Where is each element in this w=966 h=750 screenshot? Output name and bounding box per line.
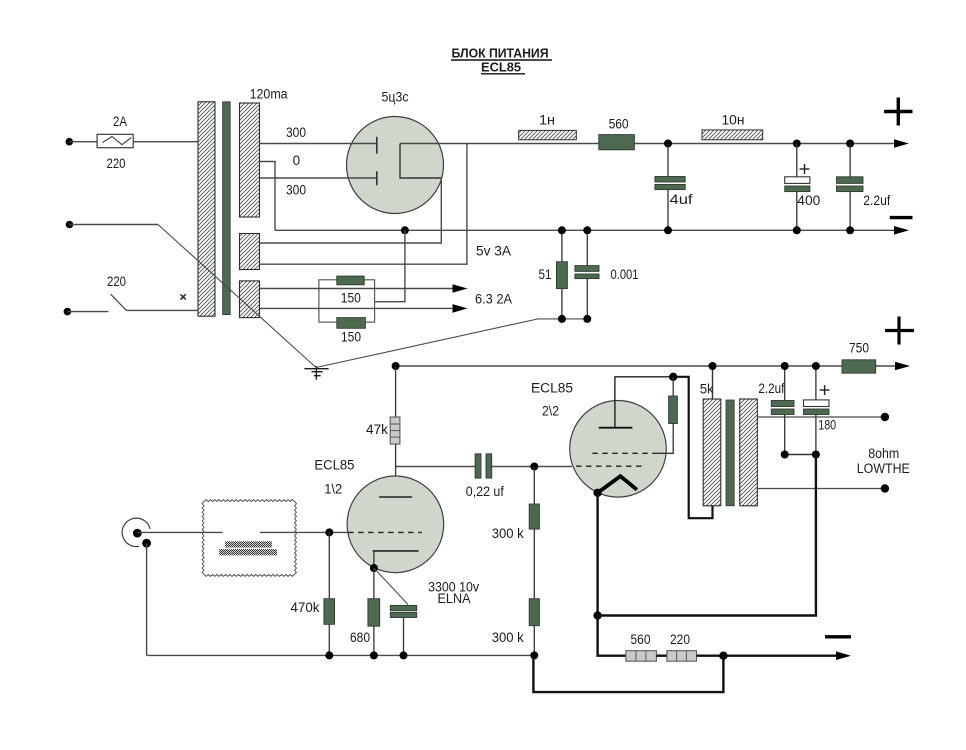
resistor 300k upper — [529, 467, 539, 599]
node bus-humdinger — [401, 226, 409, 234]
wire diagonal N to ground — [158, 225, 316, 368]
svg-text:220: 220 — [107, 274, 126, 289]
minus symbol amp — [825, 635, 851, 638]
fuse F1 2A — [97, 134, 133, 147]
capacitor 180 electrolytic — [804, 366, 830, 455]
node 0.001 bottom — [583, 315, 591, 323]
feedback wire cathode down — [596, 493, 598, 616]
RCA input jack — [122, 518, 151, 547]
node ELNA bottom — [400, 651, 408, 659]
node 2.2uf psu top — [846, 140, 854, 148]
svg-text:6.3 2A: 6.3 2A — [475, 292, 512, 307]
capacitor 0,22uf coupling — [475, 454, 492, 478]
node 2.2uf psu bottom — [846, 226, 854, 234]
node 400 top — [793, 140, 801, 148]
output transformer 5k primary — [703, 399, 721, 506]
svg-text:1\2: 1\2 — [324, 482, 342, 497]
humdinger box — [319, 280, 375, 322]
resistor 150 top — [337, 276, 364, 285]
terminal mains L — [66, 138, 74, 146]
rectifier anode plate 2 — [376, 171, 378, 185]
node 180 top — [812, 362, 820, 370]
switch SW1 lever — [111, 294, 127, 310]
ground symbol — [304, 366, 328, 380]
node 680 bottom — [370, 651, 378, 659]
wire 220 to arrow — [697, 655, 839, 657]
feedback wire to caps — [598, 455, 816, 616]
arrow feedback out — [836, 651, 851, 660]
transformer T1 primary winding — [198, 102, 215, 316]
svg-text:150: 150 — [341, 291, 361, 306]
title ECL85 — [481, 61, 525, 75]
node 0.001 top — [583, 226, 591, 234]
wire terminal N — [70, 224, 159, 226]
anode2 wire up and over — [615, 377, 673, 428]
x mark — [181, 294, 186, 299]
wire ground diagonal to filter bottom — [316, 319, 587, 368]
node screen resistor top — [669, 373, 677, 381]
terminal speaker top — [881, 413, 889, 421]
svg-text:1н: 1н — [539, 113, 555, 128]
wire rail to 5k primary — [712, 366, 714, 399]
output transformer secondary — [740, 399, 758, 506]
svg-text:220: 220 — [670, 632, 690, 647]
terminal mains switch side — [64, 308, 72, 316]
svg-text:ELNA: ELNA — [438, 591, 471, 606]
resistor 750 — [842, 360, 876, 373]
svg-text:180: 180 — [818, 418, 836, 433]
ground rail bottom — [147, 654, 535, 656]
wire switch to primary — [126, 309, 198, 311]
svg-text:750: 750 — [849, 341, 869, 356]
terminal speaker bottom — [881, 484, 889, 492]
tube2 cathode heavy V — [598, 476, 637, 493]
transformer T1 5v secondary — [240, 234, 260, 270]
svg-text:220: 220 — [107, 156, 126, 171]
tube ECL85 1/2 envelope — [347, 476, 444, 573]
svg-text:300 k: 300 k — [492, 526, 524, 541]
node rail 5k — [709, 362, 717, 370]
node 400 bottom — [793, 226, 801, 234]
svg-text:680: 680 — [350, 630, 370, 645]
resistor 560 psu — [599, 135, 635, 150]
wire HV center tap 0 — [260, 162, 276, 231]
wire secondary to speaker bottom — [757, 488, 885, 490]
wire input shield down — [146, 543, 148, 655]
node cap join left — [781, 451, 789, 459]
node 4uf top — [664, 140, 672, 148]
node cap join right — [812, 451, 820, 459]
capacitor 2.2uf psu — [837, 144, 864, 231]
svg-text:8ohm: 8ohm — [868, 446, 899, 461]
tube1 grid dashed — [348, 531, 422, 533]
main B+ output wire — [400, 143, 897, 145]
svg-text:0,22 uf: 0,22 uf — [466, 484, 504, 499]
plus symbol psu — [884, 98, 912, 126]
svg-text:2.2uf: 2.2uf — [863, 193, 890, 208]
minus bus wire — [275, 229, 897, 231]
tube1 cathode — [373, 550, 419, 552]
svg-text:ECL85: ECL85 — [481, 61, 521, 75]
node grid2 divider — [530, 463, 538, 471]
svg-text:2.2uf: 2.2uf — [758, 381, 784, 396]
arrow 6.3v A — [453, 284, 468, 293]
resistor 51 — [556, 230, 567, 319]
transformer T1 HV secondary — [240, 103, 260, 217]
rectifier cathode box — [400, 144, 441, 179]
node rail 47k — [392, 362, 400, 370]
plus symbol amp — [885, 317, 914, 345]
svg-text:5ц3с: 5ц3с — [382, 90, 409, 105]
svg-text:560: 560 — [609, 116, 629, 131]
svg-text:4uf: 4uf — [670, 192, 693, 207]
node 51 bottom — [558, 315, 566, 323]
output transformer core — [726, 400, 734, 506]
plus mark 400 — [800, 164, 810, 174]
svg-text:0.001: 0.001 — [611, 267, 639, 282]
svg-text:400: 400 — [797, 193, 820, 208]
capacitor 4uf — [655, 144, 685, 231]
arrow amp B+ — [895, 362, 910, 371]
arrow 6.3v B — [453, 304, 468, 313]
rectifier tube 5ц3с envelope — [347, 117, 444, 214]
amp B+ rail — [396, 365, 898, 367]
wire 6.3v tap A — [260, 288, 455, 290]
capacitor 3300 10v ELNA — [390, 605, 416, 655]
svg-text:2\2: 2\2 — [542, 404, 559, 419]
tube2 control grid dashed — [576, 465, 646, 467]
wire terminal to fuse — [69, 141, 97, 143]
svg-text:560: 560 — [631, 632, 651, 647]
wire HV tap upper 300 — [260, 143, 377, 145]
node cathode2 — [593, 489, 601, 497]
wire HV tap lower 300 — [260, 177, 377, 179]
svg-text:LOWTHE: LOWTHE — [857, 461, 910, 476]
svg-text:150: 150 — [341, 330, 361, 345]
node 51 top — [558, 226, 566, 234]
volume pot texture bar 1 — [225, 541, 272, 547]
wire coupling to grid2 — [492, 466, 572, 468]
wire terminal to switch — [67, 311, 108, 313]
wire fuse to transformer primary — [133, 141, 198, 143]
transformer T1 6.3v secondary — [240, 281, 260, 318]
resistor 470k — [324, 532, 335, 655]
wire input signal — [137, 531, 222, 533]
transformer T1 core — [223, 102, 231, 315]
feedback jog wire — [533, 655, 723, 692]
node feedback jog — [719, 652, 727, 660]
capacitor 0.001 — [575, 230, 599, 319]
arrow bus right — [894, 226, 909, 235]
volume pot texture bar 2 — [219, 549, 277, 555]
wire anode1 to coupling — [396, 466, 476, 468]
resistor 220 feedback — [667, 651, 697, 662]
svg-text:300 k: 300 k — [492, 630, 524, 645]
node cathode1 — [370, 564, 378, 572]
resistor 680 — [368, 568, 380, 655]
svg-text:ECL85: ECL85 — [531, 381, 573, 396]
node 2.2uf amp top — [781, 362, 789, 370]
tube ECL85 2/2 envelope — [570, 401, 667, 498]
svg-text:300: 300 — [286, 183, 306, 198]
svg-text:300: 300 — [286, 125, 306, 140]
wire cathode to 560 — [598, 616, 626, 656]
shielded input box zigzag — [202, 500, 296, 577]
svg-text:БЛОК ПИТАНИЯ: БЛОК ПИТАНИЯ — [452, 47, 549, 61]
svg-text:2A: 2A — [113, 114, 127, 129]
node 4uf bottom — [664, 226, 672, 234]
screen resistor — [656, 377, 677, 454]
resistor 560 feedback — [626, 651, 657, 662]
capacitor 2.2uf amp — [771, 366, 794, 455]
node 300k bottom — [530, 651, 538, 659]
wire 5v winding A — [260, 178, 442, 243]
node grid1 — [325, 528, 333, 536]
wire 560 to 220 — [656, 655, 667, 657]
tube2 anode — [599, 427, 633, 429]
node cathode junction — [593, 611, 601, 619]
rectifier anode plate 1 — [376, 137, 378, 154]
choke 10н — [702, 130, 763, 140]
svg-text:51: 51 — [539, 267, 552, 282]
tube1 cathode lead — [373, 551, 375, 568]
tube1 anode — [379, 496, 412, 498]
wire cap bottoms join — [785, 454, 816, 456]
terminal mains N — [66, 221, 74, 229]
choke 1н — [519, 130, 577, 139]
wire cathode1 to ELNA diagonal — [374, 568, 408, 605]
title БЛОК ПИТАНИЯ — [451, 47, 552, 61]
svg-text:0: 0 — [293, 153, 301, 168]
node 470k bottom — [325, 651, 333, 659]
resistor 300k lower — [529, 599, 539, 656]
svg-text:10н: 10н — [722, 113, 745, 128]
svg-text:5v 3A: 5v 3A — [476, 244, 511, 259]
svg-text:ECL85: ECL85 — [314, 458, 354, 473]
svg-text:470k: 470k — [291, 600, 320, 615]
svg-text:47k: 47k — [366, 422, 388, 437]
wire 6.3v tap B — [260, 307, 455, 309]
resistor 47k — [390, 366, 400, 497]
wire secondary to speaker top — [757, 416, 885, 418]
arrow B+ right — [894, 139, 909, 148]
resistor 150 bottom — [337, 318, 366, 329]
capacitor 400 electrolytic — [785, 144, 810, 231]
svg-text:120ma: 120ma — [250, 87, 288, 102]
wire 5v winding B — [260, 144, 467, 265]
wire humdinger to bus — [375, 230, 405, 301]
minus symbol psu — [890, 216, 913, 219]
plus mark 180 — [820, 385, 830, 395]
tube2 screen grid dashed — [592, 452, 656, 454]
